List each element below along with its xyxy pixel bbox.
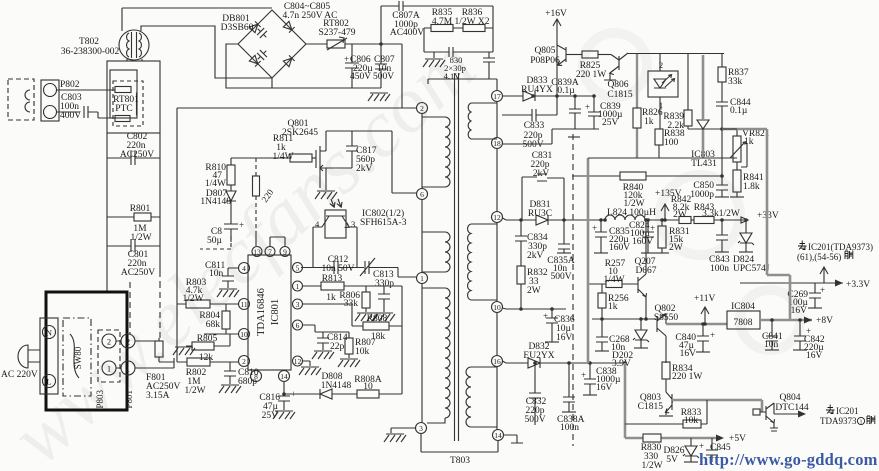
svg-text:36-238300-002: 36-238300-002 (61, 47, 120, 57)
svg-text:12: 12 (294, 357, 302, 366)
svg-text:+: + (581, 370, 586, 380)
wire tl431 ref row redraw (688, 128, 737, 130)
resistor R832 (517, 266, 525, 309)
svg-text:DTC144: DTC144 (775, 403, 809, 413)
capacitor C807 (375, 44, 387, 88)
svg-text:RU4YX: RU4YX (521, 85, 553, 95)
svg-text:1: 1 (659, 100, 663, 110)
svg-text:1N4148: 1N4148 (200, 197, 231, 207)
capacitor C830 pair (424, 47, 497, 90)
wire T802 right to bridge bottom (141, 26, 272, 78)
resistor R835 (424, 25, 453, 53)
svg-text:R808: R808 (367, 314, 388, 324)
wire Q802 base row (592, 318, 656, 320)
capacitor C803 (57, 106, 116, 292)
svg-text:S8550: S8550 (654, 313, 679, 323)
resistor R807 (345, 332, 353, 358)
svg-text:T802: T802 (79, 37, 99, 47)
svg-text:220 1W: 220 1W (576, 70, 606, 80)
svg-text:10n 50V: 10n 50V (322, 264, 355, 274)
svg-text:1: 1 (296, 282, 300, 291)
svg-text:6: 6 (296, 321, 300, 330)
+11V arrow (701, 307, 709, 324)
wire pin12 (302, 361, 310, 366)
watermark (0, 22, 492, 471)
go to IC201 label (797, 241, 873, 263)
svg-text:100: 100 (664, 138, 679, 148)
svg-text:500V: 500V (524, 415, 545, 425)
svg-text:+: + (543, 311, 548, 321)
svg-text:1.8k: 1.8k (743, 182, 760, 192)
transistor Q805 (557, 45, 582, 96)
optocoupler IC802 LED side (648, 54, 678, 129)
svg-text:220 1W: 220 1W (672, 372, 702, 382)
svg-text:14: 14 (494, 431, 502, 440)
svg-text:22p: 22p (330, 342, 345, 352)
svg-text:500V: 500V (522, 140, 543, 150)
wire dashed to connectors (130, 271, 160, 338)
svg-text:0.1µ: 0.1µ (730, 106, 748, 116)
svg-text:+: + (820, 285, 825, 295)
svg-text:Q804: Q804 (779, 393, 800, 403)
capacitor C812 (301, 261, 364, 274)
resistor R831 (658, 220, 666, 253)
svg-text:10: 10 (240, 330, 248, 339)
svg-text:14: 14 (280, 372, 288, 381)
svg-text:UPC574J: UPC574J (733, 264, 770, 274)
wire node 12 B+ row (503, 218, 606, 220)
capacitor C806 (345, 44, 359, 88)
svg-text:10k: 10k (355, 347, 370, 357)
node 17 (492, 91, 503, 102)
svg-text:+3.3V: +3.3V (846, 280, 870, 290)
thick wire +8V rail (760, 319, 812, 322)
svg-text:3: 3 (351, 219, 355, 229)
svg-text:68k: 68k (206, 320, 221, 330)
wire tl431 ref row (688, 128, 767, 130)
resistor R813 (302, 282, 402, 290)
transistor Q207 (638, 220, 647, 319)
node N (40, 318, 58, 394)
resistor R808A (357, 390, 402, 398)
thick wire Q803 base to Q804 (673, 400, 762, 412)
svg-text:2.2k: 2.2k (667, 121, 684, 131)
capacitor C833 (502, 96, 557, 121)
capacitor C824 (642, 220, 654, 253)
node 12 (492, 212, 503, 223)
capacitor C845 (706, 438, 718, 462)
svg-text:450V: 450V (350, 72, 371, 82)
zener D826 (683, 438, 699, 462)
svg-text:10: 10 (363, 382, 373, 392)
svg-text:500V: 500V (373, 72, 394, 82)
wire vertical node (401, 286, 403, 394)
svg-text:R805: R805 (197, 334, 218, 344)
svg-text:PTC: PTC (115, 104, 132, 114)
svg-text:1/4W: 1/4W (205, 179, 226, 189)
capacitor C838A (563, 363, 575, 412)
svg-text:1k: 1k (326, 293, 336, 303)
resistor R256 (598, 284, 606, 319)
resistor R836 (453, 6, 493, 52)
svg-text:160V: 160V (632, 237, 653, 247)
svg-text:SFH615A-3: SFH615A-3 (360, 218, 407, 228)
resistor R806 (362, 286, 370, 312)
capacitor C813 (360, 258, 416, 277)
connector P801 (121, 334, 135, 375)
svg-text:+5V: +5V (729, 434, 746, 444)
svg-text:D667: D667 (635, 266, 656, 276)
svg-text:7: 7 (268, 248, 272, 257)
svg-text:R801: R801 (130, 204, 151, 214)
svg-text:TDA16846: TDA16846 (256, 288, 267, 336)
ground primary near C807 (368, 93, 390, 101)
capacitor C815 (200, 224, 238, 249)
svg-text:http://www.go-gddq.com: http://www.go-gddq.com (699, 450, 878, 469)
svg-text:1/4W: 1/4W (272, 152, 293, 162)
svg-text:5V: 5V (666, 455, 678, 465)
node 10 (492, 302, 503, 313)
svg-text:N: N (46, 328, 52, 338)
transformer T802 (119, 30, 149, 60)
+3.3V rail (740, 280, 843, 287)
capacitor C839 (588, 96, 600, 129)
svg-text:6: 6 (420, 190, 424, 199)
svg-text:2: 2 (126, 337, 130, 347)
svg-text:+: + (592, 223, 597, 233)
node 14 (493, 430, 504, 441)
svg-text:2W: 2W (673, 210, 687, 220)
capacitor C832 (529, 363, 541, 425)
capacitor C842 (794, 320, 806, 350)
potentiometer VR821 (730, 129, 747, 170)
+135V arrow (661, 204, 669, 220)
svg-text:0.1µ: 0.1µ (557, 86, 575, 96)
svg-text:50µ: 50µ (207, 236, 223, 246)
svg-text:10n: 10n (764, 340, 779, 350)
svg-text:IC201(TDA9373): IC201(TDA9373) (808, 242, 873, 252)
capacitor C835A (558, 220, 570, 253)
IC801 TDA16846 (248, 255, 291, 370)
resistor R834 (662, 362, 670, 390)
capacitor C268 (596, 319, 608, 351)
svg-text:1000p: 1000p (690, 190, 714, 200)
svg-text:S237-479: S237-479 (319, 28, 356, 38)
capacitor C850 (716, 129, 728, 197)
resistor R842 (679, 217, 694, 224)
wire P802 upper (57, 89, 116, 91)
resistor R805 (186, 334, 230, 350)
capacitor C269 (809, 283, 821, 308)
svg-text:4: 4 (242, 264, 246, 273)
svg-text:1N4148: 1N4148 (321, 381, 352, 391)
svg-text:16V: 16V (791, 306, 808, 316)
svg-text:P08P06: P08P06 (530, 56, 560, 66)
svg-text:11: 11 (240, 300, 247, 309)
svg-text:3: 3 (296, 300, 300, 309)
fuse F801 (155, 338, 174, 362)
svg-text:L824 100µH: L824 100µH (607, 208, 656, 218)
ground at node 3 (391, 427, 416, 429)
svg-text:16V: 16V (556, 333, 573, 343)
wire feedback row (588, 157, 737, 159)
svg-text:1k: 1k (608, 302, 618, 312)
zener D202 (633, 319, 649, 348)
resistor R257 (606, 281, 622, 288)
svg-text:1: 1 (126, 364, 130, 374)
svg-text:R813: R813 (322, 274, 343, 284)
wire gate drive rail (231, 157, 290, 159)
node 18 (492, 138, 503, 149)
svg-text:L: L (46, 377, 51, 387)
capacitor C844 (716, 102, 728, 129)
+16V supply (553, 19, 561, 47)
wire bridge positive rail (177, 44, 417, 108)
diode D807 (226, 191, 236, 224)
svg-text:3.3k1/2W: 3.3k1/2W (702, 209, 740, 219)
capacitor C810 (224, 362, 236, 384)
svg-text:33k: 33k (728, 77, 743, 87)
AC plug (18, 345, 40, 368)
svg-text:AC250V: AC250V (121, 268, 155, 278)
svg-text:AC400V: AC400V (390, 28, 424, 38)
resistor R804 (204, 304, 238, 334)
svg-text:18: 18 (493, 139, 501, 148)
diode D832 (528, 358, 540, 368)
capacitor C843 (716, 220, 728, 252)
svg-text:5: 5 (296, 264, 300, 273)
capacitor C801 (107, 239, 160, 252)
svg-text:IC201: IC201 (836, 406, 859, 416)
capacitor C838 (584, 363, 596, 395)
wire node 18 row (503, 129, 600, 144)
resistor R812 220 (253, 158, 260, 246)
svg-text:2: 2 (242, 357, 246, 366)
transistor Q802 (657, 314, 666, 363)
capacitor C816 (278, 382, 290, 411)
svg-text:P802: P802 (60, 80, 80, 90)
svg-text:2kV: 2kV (533, 169, 550, 179)
resistor R803 (177, 108, 238, 362)
isolation barrier dashed (572, 134, 574, 446)
svg-text:1/4W: 1/4W (603, 275, 624, 285)
resistor R826 (636, 54, 638, 158)
wire node 16 +5V row (503, 361, 626, 363)
svg-text:1: 1 (860, 420, 863, 426)
svg-text:1/2W: 1/2W (130, 233, 151, 243)
svg-text:10n: 10n (209, 269, 224, 279)
connector P803 (98, 330, 120, 382)
resistor R837 (718, 54, 726, 102)
svg-text:+16V: +16V (545, 9, 567, 19)
resistor R802 (177, 358, 238, 366)
thick wire +5V path (625, 363, 718, 438)
node 1 (417, 273, 428, 284)
resistor R833 (625, 400, 707, 428)
capacitor C817 (326, 131, 358, 168)
svg-text:EU2YX: EU2YX (523, 351, 554, 361)
bridge rectifier DB801 (238, 10, 306, 78)
node 16 (492, 356, 503, 367)
svg-text:7808: 7808 (734, 318, 753, 328)
svg-text:2W: 2W (527, 286, 541, 296)
svg-text:1: 1 (420, 274, 424, 283)
thermistor RT801 (113, 81, 143, 126)
node 3 (416, 423, 427, 434)
transistor Q806 (604, 53, 628, 80)
diode D808 (284, 389, 357, 399)
wire rail y96 from node 17 (503, 95, 595, 97)
svg-text:AC250V: AC250V (120, 150, 154, 160)
capacitor C814 (302, 325, 349, 350)
node junction dot (379, 42, 383, 46)
svg-text:+: + (585, 102, 590, 112)
svg-text:Q805: Q805 (534, 46, 555, 56)
svg-text:+: + (344, 54, 349, 64)
svg-text:9: 9 (283, 248, 287, 257)
resistor R808 (302, 304, 402, 330)
svg-text:4.7M: 4.7M (432, 17, 453, 27)
resistor R801 (107, 213, 160, 221)
diode D831 (536, 215, 548, 225)
svg-text:SW80: SW80 (73, 346, 83, 369)
wire Q207 base row (589, 283, 638, 285)
svg-text:17: 17 (493, 92, 501, 101)
capacitor C807A (381, 1, 493, 44)
svg-text:1k: 1k (644, 117, 654, 127)
regulator IC804 7808 (727, 311, 760, 329)
resistor R838 (655, 129, 663, 158)
svg-text:+11V: +11V (694, 294, 716, 304)
resistor R825 (582, 51, 611, 58)
svg-text:680p: 680p (238, 377, 257, 387)
capacitor C839A (569, 96, 581, 129)
capacitor C836 (546, 309, 558, 342)
transformer T803 (421, 73, 498, 452)
ground at node 14 (504, 435, 523, 443)
svg-text:25V: 25V (602, 118, 619, 128)
svg-text:10k: 10k (684, 416, 699, 426)
capacitor C841 (766, 320, 778, 350)
svg-text:P801: P801 (124, 390, 134, 409)
capacitor by R806 (378, 286, 390, 312)
svg-text:AC 220V: AC 220V (1, 370, 38, 380)
svg-text:2kV: 2kV (356, 164, 373, 174)
svg-text:T803: T803 (450, 456, 470, 466)
switch SW801 (63, 318, 91, 396)
module box (107, 61, 160, 133)
switch assembly outline (46, 292, 127, 410)
svg-text:TL431: TL431 (691, 159, 717, 169)
transistor Q804 DTC144 (753, 403, 805, 431)
svg-text:2: 2 (659, 60, 663, 70)
fusible resistor RT802 (327, 37, 347, 50)
svg-text:+: + (710, 330, 715, 340)
svg-text:D3SB60: D3SB60 (221, 23, 254, 33)
svg-text:1/2W: 1/2W (641, 461, 662, 471)
svg-text:3: 3 (419, 424, 423, 433)
capacitor C802 (107, 151, 160, 165)
svg-text:2SK2645: 2SK2645 (282, 128, 318, 138)
capacitor C811 (222, 268, 238, 288)
svg-text:TDA9373: TDA9373 (820, 416, 857, 426)
resistor R841 (733, 170, 741, 197)
svg-text:Q806: Q806 (607, 80, 628, 90)
svg-text:C1815: C1815 (638, 402, 664, 412)
wire top rail from T802 to bridge top (122, 8, 272, 31)
svg-text:RU3C: RU3C (528, 209, 552, 219)
thick wire feedback vertical (588, 55, 703, 363)
diode D833 (523, 91, 535, 101)
svg-text:1: 1 (107, 364, 111, 374)
wire right rail (159, 133, 161, 271)
svg-text:25V: 25V (262, 411, 279, 421)
capacitor C840 (697, 324, 709, 352)
optocoupler IC802 (313, 199, 357, 267)
wire T802 bottom stubs (127, 59, 142, 61)
svg-text:P803: P803 (95, 390, 105, 409)
svg-text:16V: 16V (596, 383, 613, 393)
resistor R830 (643, 434, 661, 442)
wire pins 7-9 staple (270, 237, 285, 247)
shunt regulator IC803 TL431 (697, 120, 709, 129)
svg-text:C1815: C1815 (607, 90, 633, 100)
resistor R840 (572, 172, 722, 180)
svg-text:(61),(54-56): (61),(54-56) (797, 252, 841, 262)
svg-text:3.15A: 3.15A (146, 391, 170, 401)
thick wire +11V rail (666, 323, 727, 326)
capacitor C834 (515, 220, 527, 266)
svg-text:10: 10 (493, 303, 501, 312)
svg-text:2kV: 2kV (527, 251, 544, 261)
svg-text:1k: 1k (744, 137, 754, 147)
svg-text:160V: 160V (609, 243, 630, 253)
pin 13 (239, 247, 303, 382)
svg-text:+: + (239, 220, 244, 230)
connector P802 (8, 79, 59, 121)
inductor L824 (605, 215, 679, 220)
svg-text:400V: 400V (60, 111, 81, 121)
node 2 (417, 103, 428, 114)
svg-text:16V: 16V (680, 349, 697, 359)
svg-text:2: 2 (420, 104, 424, 113)
wire bridge negative rail (226, 44, 381, 88)
transistor Q803 (665, 390, 673, 415)
svg-text:IC804: IC804 (731, 302, 755, 312)
svg-text:C833: C833 (524, 121, 545, 131)
svg-text:330p: 330p (375, 279, 394, 289)
svg-text:16: 16 (493, 357, 501, 366)
resistor R843 (694, 217, 748, 224)
svg-text:100n: 100n (560, 423, 579, 433)
svg-text:2W: 2W (669, 243, 683, 253)
capacitor C835 (595, 220, 607, 253)
MOSFET Q801 (316, 131, 326, 190)
svg-text:+: + (650, 223, 655, 233)
svg-text:+8V: +8V (816, 316, 833, 326)
svg-text:500V: 500V (550, 272, 571, 282)
svg-text:IC801: IC801 (270, 299, 281, 325)
wire drain to node 6 (326, 131, 416, 193)
wire connector links (116, 341, 174, 368)
svg-text:16V: 16V (806, 351, 823, 361)
resistor R810 (227, 158, 235, 191)
thick wire ref to +8V (722, 129, 790, 320)
svg-text:12: 12 (493, 213, 501, 222)
node 6 (417, 189, 428, 200)
svg-text:13: 13 (253, 248, 261, 257)
svg-text:1/2W X2: 1/2W X2 (455, 17, 490, 27)
